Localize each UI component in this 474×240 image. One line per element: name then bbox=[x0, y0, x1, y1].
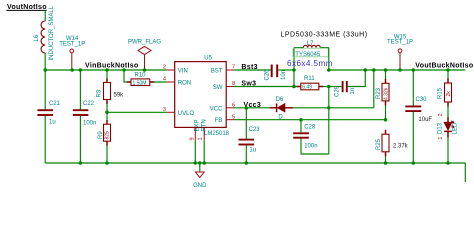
svg-text:VinBuckNotIso: VinBuckNotIso bbox=[85, 62, 139, 69]
wire L6 to rail bbox=[44, 53, 46, 70]
svg-text:TYS6045: TYS6045 bbox=[295, 52, 321, 58]
resistor R25 bbox=[376, 134, 408, 163]
node FB divider junction bbox=[384, 118, 388, 122]
test point W15 bbox=[387, 34, 413, 70]
svg-text:L6: L6 bbox=[34, 34, 40, 41]
label VoutNotIso bbox=[6, 4, 47, 11]
wire SW to snubber bbox=[235, 86, 301, 88]
svg-text:1u: 1u bbox=[249, 147, 256, 153]
svg-text:C21: C21 bbox=[49, 101, 61, 107]
value box TYS6045 bbox=[293, 48, 328, 58]
wire C29 to rail bbox=[348, 70, 366, 87]
pin 3 UVLO bbox=[163, 107, 195, 117]
resistor R23 bbox=[376, 70, 389, 120]
node R15 rail junction bbox=[446, 68, 450, 72]
op-amp U5 LM25018 body bbox=[175, 56, 230, 138]
svg-text:R25: R25 bbox=[376, 138, 382, 150]
wire R11 to snubber node bbox=[319, 86, 342, 88]
wire EXP to bottom rail bbox=[194, 141, 196, 163]
node R10 branch junction bbox=[122, 68, 126, 72]
wire L7 right column to rail bbox=[328, 48, 330, 70]
wire C22 drop bbox=[79, 70, 81, 110]
wire BST to C26 bbox=[235, 69, 271, 71]
svg-text:LPD5030-333ME (33uH): LPD5030-333ME (33uH) bbox=[281, 32, 368, 39]
pin 9 EXP bbox=[190, 119, 201, 140]
wire R15 to D13 bbox=[447, 102, 449, 122]
node R8 junction bbox=[105, 68, 109, 72]
svg-text:R8: R8 bbox=[97, 89, 103, 97]
pin 1 RTN bbox=[197, 119, 207, 140]
svg-text:BST: BST bbox=[211, 68, 223, 74]
svg-text:2: 2 bbox=[163, 65, 166, 71]
node C22 junction bbox=[79, 68, 83, 72]
svg-text:2k: 2k bbox=[446, 91, 452, 97]
svg-text:C29: C29 bbox=[335, 85, 341, 97]
diode D6 bbox=[276, 97, 285, 121]
svg-text:3: 3 bbox=[163, 107, 166, 113]
svg-text:LM25018: LM25018 bbox=[204, 131, 230, 137]
resistor R8 bbox=[97, 83, 125, 100]
svg-text:59k: 59k bbox=[114, 93, 125, 99]
svg-text:2: 2 bbox=[438, 113, 444, 116]
svg-text:VoutBuckNotIso: VoutBuckNotIso bbox=[415, 63, 473, 70]
wire R10 branch bbox=[124, 70, 131, 82]
svg-text:100n: 100n bbox=[304, 144, 317, 150]
node VinBuckNotIso junction L6/C21 bbox=[43, 68, 47, 72]
node SW row junction bbox=[292, 85, 296, 89]
svg-text:VCC: VCC bbox=[210, 106, 223, 112]
svg-text:R9: R9 bbox=[98, 131, 104, 139]
svg-text:EXP: EXP bbox=[194, 119, 200, 131]
node W14 junction bbox=[70, 68, 74, 72]
svg-text:INDUCTOR_SMALL: INDUCTOR_SMALL bbox=[49, 5, 55, 60]
svg-text:R15: R15 bbox=[438, 87, 444, 99]
svg-text:D13: D13 bbox=[437, 122, 443, 134]
wire R8 drop bbox=[106, 70, 108, 83]
svg-text:100n: 100n bbox=[83, 120, 96, 126]
test point W14 bbox=[59, 36, 85, 70]
node C22 bottom junction bbox=[79, 161, 83, 165]
resistor R10 bbox=[131, 72, 150, 86]
svg-text:1: 1 bbox=[197, 137, 203, 140]
svg-text:C26: C26 bbox=[265, 69, 271, 81]
svg-text:2.37k: 2.37k bbox=[393, 144, 409, 150]
node R25 bottom junction bbox=[384, 161, 388, 165]
svg-text:UVLO: UVLO bbox=[178, 111, 195, 117]
pin stubs resistors and diodes bbox=[107, 78, 448, 156]
svg-text:PWR_FLAG: PWR_FLAG bbox=[128, 39, 161, 45]
node W15 junction bbox=[398, 68, 402, 72]
wire FB row bbox=[235, 119, 386, 121]
node EXP junction bbox=[194, 161, 198, 165]
svg-text:6x6x4.5mm: 6x6x4.5mm bbox=[287, 59, 333, 68]
node C23 junction on Vcc row bbox=[245, 106, 249, 110]
capacitor C29 bbox=[335, 81, 357, 97]
svg-text:1n: 1n bbox=[350, 88, 356, 95]
ground bbox=[193, 163, 207, 189]
pin 5 FB bbox=[215, 114, 235, 124]
pin 8 SW bbox=[213, 81, 235, 91]
node R23 rail junction bbox=[384, 68, 388, 72]
svg-text:U5: U5 bbox=[204, 56, 212, 62]
pin 4 RON bbox=[163, 77, 191, 87]
svg-text:VIN: VIN bbox=[178, 69, 188, 75]
wire D6 anode row bbox=[285, 107, 374, 109]
wire snubber column bbox=[328, 87, 330, 155]
wire R9 to bottom rail bbox=[106, 141, 108, 163]
svg-text:TEST_1P: TEST_1P bbox=[387, 40, 413, 46]
inductor L6 bbox=[34, 5, 55, 60]
node C28 top junction bbox=[299, 118, 303, 122]
wire VinBuckNotIso rail bbox=[45, 69, 166, 71]
node R9 bottom junction bbox=[105, 161, 109, 165]
wire R8 to UVLO node bbox=[106, 100, 108, 125]
svg-text:R11: R11 bbox=[304, 76, 315, 82]
wire VoutNotIso to L6 bbox=[44, 10, 46, 21]
wire C21 to bottom rail bbox=[44, 116, 46, 163]
node L7 output junction bbox=[327, 68, 331, 72]
node C30 bottom junction bbox=[412, 161, 416, 165]
svg-text:TEST_1P: TEST_1P bbox=[59, 41, 85, 47]
svg-text:825: 825 bbox=[104, 131, 110, 140]
wire bottom rail bbox=[45, 162, 465, 164]
node snubber junction bbox=[327, 85, 331, 89]
svg-text:R10: R10 bbox=[135, 72, 147, 78]
node Vout feed junction bbox=[372, 68, 376, 72]
svg-text:RON: RON bbox=[178, 81, 191, 87]
resistor R15 bbox=[438, 70, 452, 102]
svg-text:GND: GND bbox=[193, 183, 207, 189]
svg-text:C22: C22 bbox=[83, 101, 95, 107]
svg-text:10uF: 10uF bbox=[418, 117, 432, 123]
svg-text:1: 1 bbox=[438, 137, 444, 140]
wire RTN to bottom rail bbox=[203, 141, 205, 163]
power flag PWR_FLAG bbox=[128, 39, 161, 70]
svg-text:4: 4 bbox=[163, 77, 166, 83]
svg-text:C23: C23 bbox=[249, 127, 261, 133]
capacitor C28 bbox=[293, 120, 329, 154]
wire VCC to D6 bbox=[235, 107, 277, 109]
node C30 rail junction bbox=[412, 68, 416, 72]
svg-text:1.50M: 1.50M bbox=[133, 81, 147, 87]
svg-text:SW: SW bbox=[213, 85, 223, 91]
node C23 bottom junction bbox=[245, 161, 249, 165]
inductor L7 bbox=[294, 41, 329, 47]
pin 6 VCC bbox=[210, 103, 235, 113]
resistor R11 bbox=[301, 76, 319, 90]
capacitor C26 bbox=[265, 65, 288, 81]
wire D13 to bottom rail bbox=[447, 132, 449, 163]
wire R10 to RON pin bbox=[150, 81, 166, 83]
wire C26 to SW node column bbox=[278, 69, 294, 71]
svg-text:C30: C30 bbox=[416, 97, 428, 103]
LED D13 bbox=[437, 121, 458, 140]
node RTN junction bbox=[202, 161, 206, 165]
svg-text:RTN: RTN bbox=[202, 119, 208, 131]
wire SW node vertical bbox=[293, 48, 295, 87]
capacitor C23 bbox=[239, 108, 261, 163]
node D6 anode junction bbox=[327, 106, 331, 110]
node C29 rail junction bbox=[364, 68, 368, 72]
pin 2 VIN bbox=[163, 65, 188, 75]
capacitor C22 bbox=[73, 101, 97, 126]
wire UVLO bbox=[107, 111, 166, 113]
pin 7 BST bbox=[211, 65, 235, 75]
node D13 bottom junction bbox=[446, 161, 450, 165]
svg-text:FB: FB bbox=[215, 118, 223, 124]
wire bottom right stub bbox=[464, 163, 466, 182]
svg-text:1u: 1u bbox=[49, 120, 56, 126]
svg-text:LED: LED bbox=[453, 122, 459, 134]
svg-text:C28: C28 bbox=[304, 125, 316, 131]
node PWR_FLAG junction bbox=[143, 68, 147, 72]
wire VoutBuckNotIso rail bbox=[329, 69, 466, 71]
wire C22 to bottom rail bbox=[79, 116, 81, 163]
svg-text:6.49: 6.49 bbox=[302, 85, 312, 91]
node C26/SW junction bbox=[292, 68, 296, 72]
svg-text:D6: D6 bbox=[276, 97, 284, 103]
wire Vout feed to D6 row bbox=[373, 70, 375, 108]
node GND junction bbox=[198, 161, 202, 165]
resistor R9 bbox=[98, 124, 111, 141]
capacitor C30 bbox=[405, 70, 432, 163]
svg-text:10n: 10n bbox=[281, 70, 287, 80]
capacitor C21 bbox=[37, 70, 60, 126]
svg-text:9: 9 bbox=[190, 137, 196, 140]
svg-text:R23: R23 bbox=[376, 87, 382, 99]
node UVLO divider junction bbox=[105, 111, 109, 115]
svg-text:4.32k: 4.32k bbox=[383, 87, 389, 100]
